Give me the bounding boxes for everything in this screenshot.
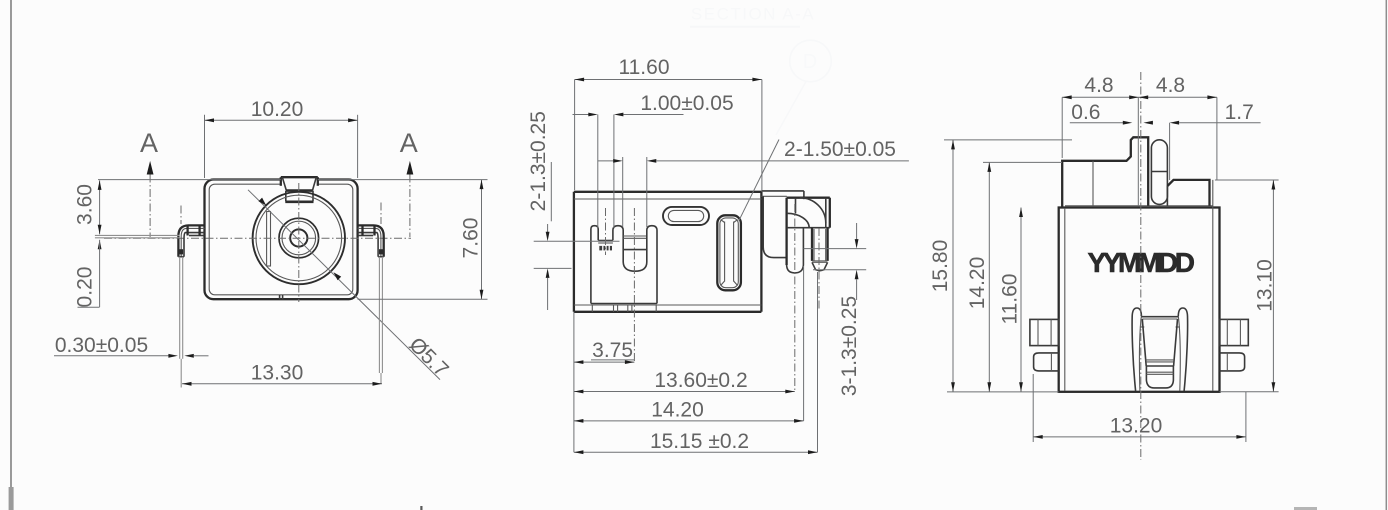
inner ring circle <box>279 218 319 258</box>
horizontal oval slot <box>663 207 709 225</box>
diameter arrowhead lower <box>334 272 342 280</box>
centerline small pin <box>605 208 607 255</box>
svg-text:A: A <box>140 128 158 158</box>
vertical centerline <box>298 183 300 302</box>
contact bar inside opening <box>267 212 271 267</box>
DC contact pin <box>812 228 828 271</box>
svg-text:13.20: 13.20 <box>1110 415 1163 438</box>
svg-text:2-1.50±0.05: 2-1.50±0.05 <box>784 138 896 161</box>
svg-text:0.20: 0.20 <box>74 267 97 308</box>
big U channel bottom <box>623 262 647 271</box>
dimension 0.6 <box>1070 101 1153 125</box>
svg-text:4.8: 4.8 <box>1156 74 1185 97</box>
block bottom line <box>591 303 657 305</box>
body outline <box>1059 208 1220 392</box>
top right step <box>761 190 804 192</box>
horizontal centerline <box>104 237 411 239</box>
terminal block post 1 <box>591 226 598 304</box>
dimension 1.7 <box>1170 101 1261 180</box>
dimension 13.60±0.2 <box>574 369 795 393</box>
svg-text:1.00±0.05: 1.00±0.05 <box>640 92 733 115</box>
svg-text:11.60: 11.60 <box>999 273 1022 324</box>
dimension 13.30 <box>182 362 382 386</box>
center pin circle <box>290 229 307 246</box>
svg-text:0.6: 0.6 <box>1071 101 1100 124</box>
left mount tab lower <box>1034 353 1059 371</box>
svg-text:13.60±0.2: 13.60±0.2 <box>654 369 747 392</box>
svg-text:D: D <box>803 51 817 73</box>
dimension 3.75 <box>574 339 635 364</box>
left thin pin <box>179 257 181 359</box>
vertical slot <box>717 215 741 290</box>
svg-text:3.60: 3.60 <box>74 184 97 225</box>
centerline round pin <box>794 204 796 391</box>
diameter arrowhead upper <box>259 198 267 206</box>
svg-text:14.20: 14.20 <box>651 399 704 422</box>
top notch <box>281 176 318 201</box>
center pill post <box>1151 140 1167 205</box>
svg-text:A: A <box>400 128 418 158</box>
svg-text:2-1.3±0.25: 2-1.3±0.25 <box>527 111 550 211</box>
body bottom extension line left <box>947 391 1059 393</box>
dimension 2-1.50±0.05 <box>598 138 909 227</box>
dimension 0.30±0.05 <box>54 334 209 358</box>
body inner edges <box>1064 208 1066 391</box>
right thin pin <box>378 257 380 373</box>
dimension 13.20 <box>1033 374 1246 442</box>
svg-text:7.60: 7.60 <box>460 218 483 259</box>
extension line top (3.60 / 7.60) <box>98 179 281 181</box>
svg-text:0.30±0.05: 0.30±0.05 <box>55 334 148 357</box>
terminal block post 3 <box>647 226 657 304</box>
svg-text:13.30: 13.30 <box>251 362 304 385</box>
svg-text:3.75: 3.75 <box>592 339 633 362</box>
vertical centerline <box>1140 72 1142 460</box>
dimension 15.80 <box>929 140 1072 392</box>
section label A right <box>400 128 418 237</box>
flat lead lines <box>95 234 180 236</box>
svg-text:13.10: 13.10 <box>1253 259 1276 312</box>
spring clip right prong <box>1176 308 1188 391</box>
dimension 3-1.3±0.25 right <box>804 223 867 396</box>
dimension 14.20 vertical <box>966 162 1062 391</box>
body inner outline <box>209 184 353 295</box>
svg-text:SECTION A-A: SECTION A-A <box>691 5 815 24</box>
dimension 13.10 <box>1215 180 1279 392</box>
left extension line bottom <box>573 312 575 452</box>
dimension 1.00±0.05 <box>573 92 734 228</box>
svg-text:1.7: 1.7 <box>1225 101 1254 124</box>
left pin centerline <box>180 206 182 225</box>
section label A left <box>140 128 158 237</box>
centerline big pin <box>633 208 635 361</box>
right pin centerline <box>380 203 382 225</box>
body right edge <box>760 192 762 312</box>
body top edges <box>574 191 762 193</box>
dimension 3.60 <box>74 180 102 234</box>
rear bracket <box>763 196 787 257</box>
sheet left border <box>10 0 12 510</box>
svg-text:15.15 ±0.2: 15.15 ±0.2 <box>650 430 749 453</box>
dimension 2-1.3±0.25 left <box>527 111 620 310</box>
barrel elbow <box>787 198 830 265</box>
dimension 11.60 vertical <box>999 208 1023 392</box>
left mount tab upper <box>1030 319 1059 345</box>
dimension 10.20 <box>205 98 358 178</box>
body bottom edges <box>574 304 762 306</box>
big U inner fold lines <box>623 235 647 237</box>
body outer outline <box>205 180 358 300</box>
svg-text:4.8: 4.8 <box>1084 74 1113 97</box>
ghost erased section title <box>690 5 831 136</box>
dimension 0.20 <box>74 240 102 308</box>
svg-text:15.80: 15.80 <box>929 240 952 293</box>
dimension 4.8 / 4.8 <box>1062 74 1217 180</box>
svg-text:11.60: 11.60 <box>619 56 670 79</box>
serrated ledge <box>598 241 613 251</box>
barrel opening outer circle <box>253 192 345 284</box>
right solder tab <box>358 225 384 256</box>
diameter leader line <box>248 190 440 380</box>
terminal block post 2 <box>613 226 623 262</box>
bottom seam ticks <box>279 295 281 300</box>
bottom center tick <box>420 506 422 510</box>
right mount tab lower <box>1220 353 1245 371</box>
spring clip left prong <box>1132 308 1144 391</box>
body left edge <box>573 192 575 312</box>
dimension 15.15±0.2 <box>574 272 818 454</box>
right mount tab upper <box>1220 319 1249 345</box>
spring clip inner body <box>1142 317 1179 388</box>
svg-text:3-1.3±0.25: 3-1.3±0.25 <box>838 296 861 396</box>
dimension 7.60 <box>358 180 488 300</box>
left solder tab <box>178 225 204 256</box>
top left block <box>1062 137 1148 207</box>
svg-text:10.20: 10.20 <box>251 98 304 121</box>
title block corner bottom-right <box>1294 507 1317 510</box>
bottom feet ticks <box>592 305 656 312</box>
dimension 14.20 <box>574 266 804 423</box>
centerline dc pin <box>818 228 820 310</box>
svg-text:14.20: 14.20 <box>966 257 989 310</box>
round pin below elbow <box>787 213 810 273</box>
top right block <box>1167 180 1209 206</box>
dimension 11.60 <box>575 56 762 190</box>
sheet right border <box>1385 0 1387 510</box>
